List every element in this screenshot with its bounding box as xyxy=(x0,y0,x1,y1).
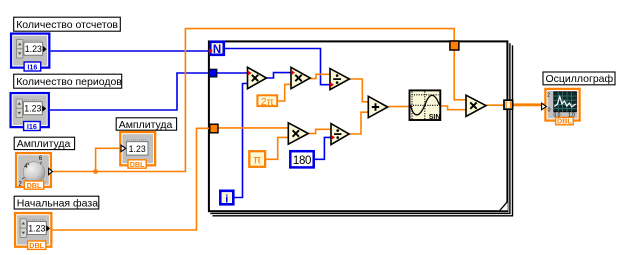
svg-text:Начальная фаза: Начальная фаза xyxy=(17,197,99,209)
svg-text:i: i xyxy=(225,193,228,205)
wire junction to Амплитуда indicator xyxy=(96,148,121,171)
wire constant pi to M3 bottom input xyxy=(265,137,288,159)
svg-text:1.23: 1.23 xyxy=(25,44,42,54)
wire sine output to M4 bottom input xyxy=(441,106,466,110)
label Количество отсчетов xyxy=(14,17,121,31)
label Амплитуда (indicator) xyxy=(116,118,176,131)
wire M1 output to M2 top input xyxy=(267,73,292,78)
multiply M4 (sine x амплитуда) xyxy=(466,95,486,116)
divide D2 (by 180) xyxy=(331,124,349,145)
wire i terminal to multiply M1 bottom input xyxy=(234,84,248,198)
constant 180 xyxy=(290,151,313,167)
label Осциллограф xyxy=(543,72,615,85)
label Амплитуда (knob) xyxy=(14,137,74,150)
control Количество периодов (I16) xyxy=(11,93,49,131)
multiply M1 (периодов x i) xyxy=(248,67,267,88)
red coercion dot at D2 bottom input xyxy=(331,135,335,140)
svg-text:DBL: DBL xyxy=(557,117,572,126)
orange tunnel top (амплитуда) xyxy=(450,41,459,50)
junction dot on amplitude wire xyxy=(93,169,98,174)
wire constant 2pi to M2 bottom input xyxy=(278,84,291,101)
wire orange tunnel to M3 top input xyxy=(218,127,288,129)
svg-text:DBL: DBL xyxy=(29,241,44,250)
svg-text:SIN: SIN xyxy=(429,114,441,121)
svg-text:N: N xyxy=(213,44,221,56)
control Количество отсчетов (I16) xyxy=(11,34,49,72)
constant pi xyxy=(249,151,265,167)
wire constant 180 to divide D2 bottom input xyxy=(314,137,331,159)
divide D1 (by N) xyxy=(330,69,349,90)
svg-text:I16: I16 xyxy=(27,122,37,131)
svg-text:2: 2 xyxy=(547,93,550,99)
wire blue tunnel to multiply M1 top input xyxy=(217,72,248,74)
loop resize grip xyxy=(500,202,508,211)
label Количество периодов xyxy=(14,74,123,88)
svg-text:2π: 2π xyxy=(261,96,274,108)
svg-text:1.23: 1.23 xyxy=(24,104,41,114)
add node xyxy=(368,96,387,117)
svg-text:Осциллограф: Осциллограф xyxy=(546,73,614,85)
terminal i xyxy=(220,191,233,206)
svg-text:DBL: DBL xyxy=(27,181,42,190)
indicator Амплитуда (DBL) xyxy=(120,132,155,169)
multiply M2 (x 2pi) xyxy=(291,67,310,88)
svg-text:Количество отсчетов: Количество отсчетов xyxy=(16,19,118,31)
label Начальная фаза xyxy=(14,196,99,209)
svg-text:DBL: DBL xyxy=(130,160,145,169)
svg-text:0: 0 xyxy=(548,108,551,114)
red coercion dot at M1 top input xyxy=(248,70,252,75)
wire Количество периодов to left blue tunnel xyxy=(50,73,209,110)
red coercion dot at M2 top input xyxy=(291,70,295,75)
control Начальная фаза (DBL) xyxy=(15,213,51,250)
wire D1 output to add node top input xyxy=(349,79,368,102)
wire add node output to sine icon xyxy=(388,106,409,108)
svg-text:180: 180 xyxy=(293,155,311,167)
svg-text:Амплитуда: Амплитуда xyxy=(17,138,71,150)
wire M2 output to D1 top input xyxy=(310,74,330,78)
svg-text:1.23: 1.23 xyxy=(28,224,45,234)
wire M4 output to indexing tunnel xyxy=(486,104,504,106)
wire M3 output to D2 top input xyxy=(308,129,331,133)
wire Начальная фаза to left orange tunnel xyxy=(52,128,210,230)
red coercion dot at D1 bottom input xyxy=(330,82,334,87)
svg-text:1.23: 1.23 xyxy=(129,144,146,154)
constant 2pi xyxy=(257,95,277,108)
orange tunnel (фаза) xyxy=(210,124,218,133)
red coercion dot at N input xyxy=(209,48,213,53)
blue tunnel (периодов) xyxy=(209,69,217,77)
wire D2 output to add node bottom input xyxy=(349,112,368,134)
indicator Осциллограф (waveform graph) xyxy=(542,89,580,126)
array wire indexing tunnel to Осциллограф xyxy=(513,103,546,106)
wire Количество отсчетов to N xyxy=(51,50,210,52)
wire N to divide D1 bottom input xyxy=(225,49,330,85)
for loop frame xyxy=(209,41,513,215)
indexing output tunnel xyxy=(504,100,513,109)
svg-text:I16: I16 xyxy=(27,62,37,71)
control Амплитуда knob (DBL) xyxy=(16,153,52,190)
sine function icon xyxy=(410,90,441,121)
multiply M3 (фаза x pi) xyxy=(288,123,308,144)
wire Амплитуда to top tunnel and M4 top input xyxy=(52,29,466,172)
svg-text:Количество периодов: Количество периодов xyxy=(16,76,122,88)
terminal N xyxy=(210,42,224,56)
svg-text:π: π xyxy=(253,155,261,167)
svg-text:Амплитуда: Амплитуда xyxy=(119,119,173,131)
